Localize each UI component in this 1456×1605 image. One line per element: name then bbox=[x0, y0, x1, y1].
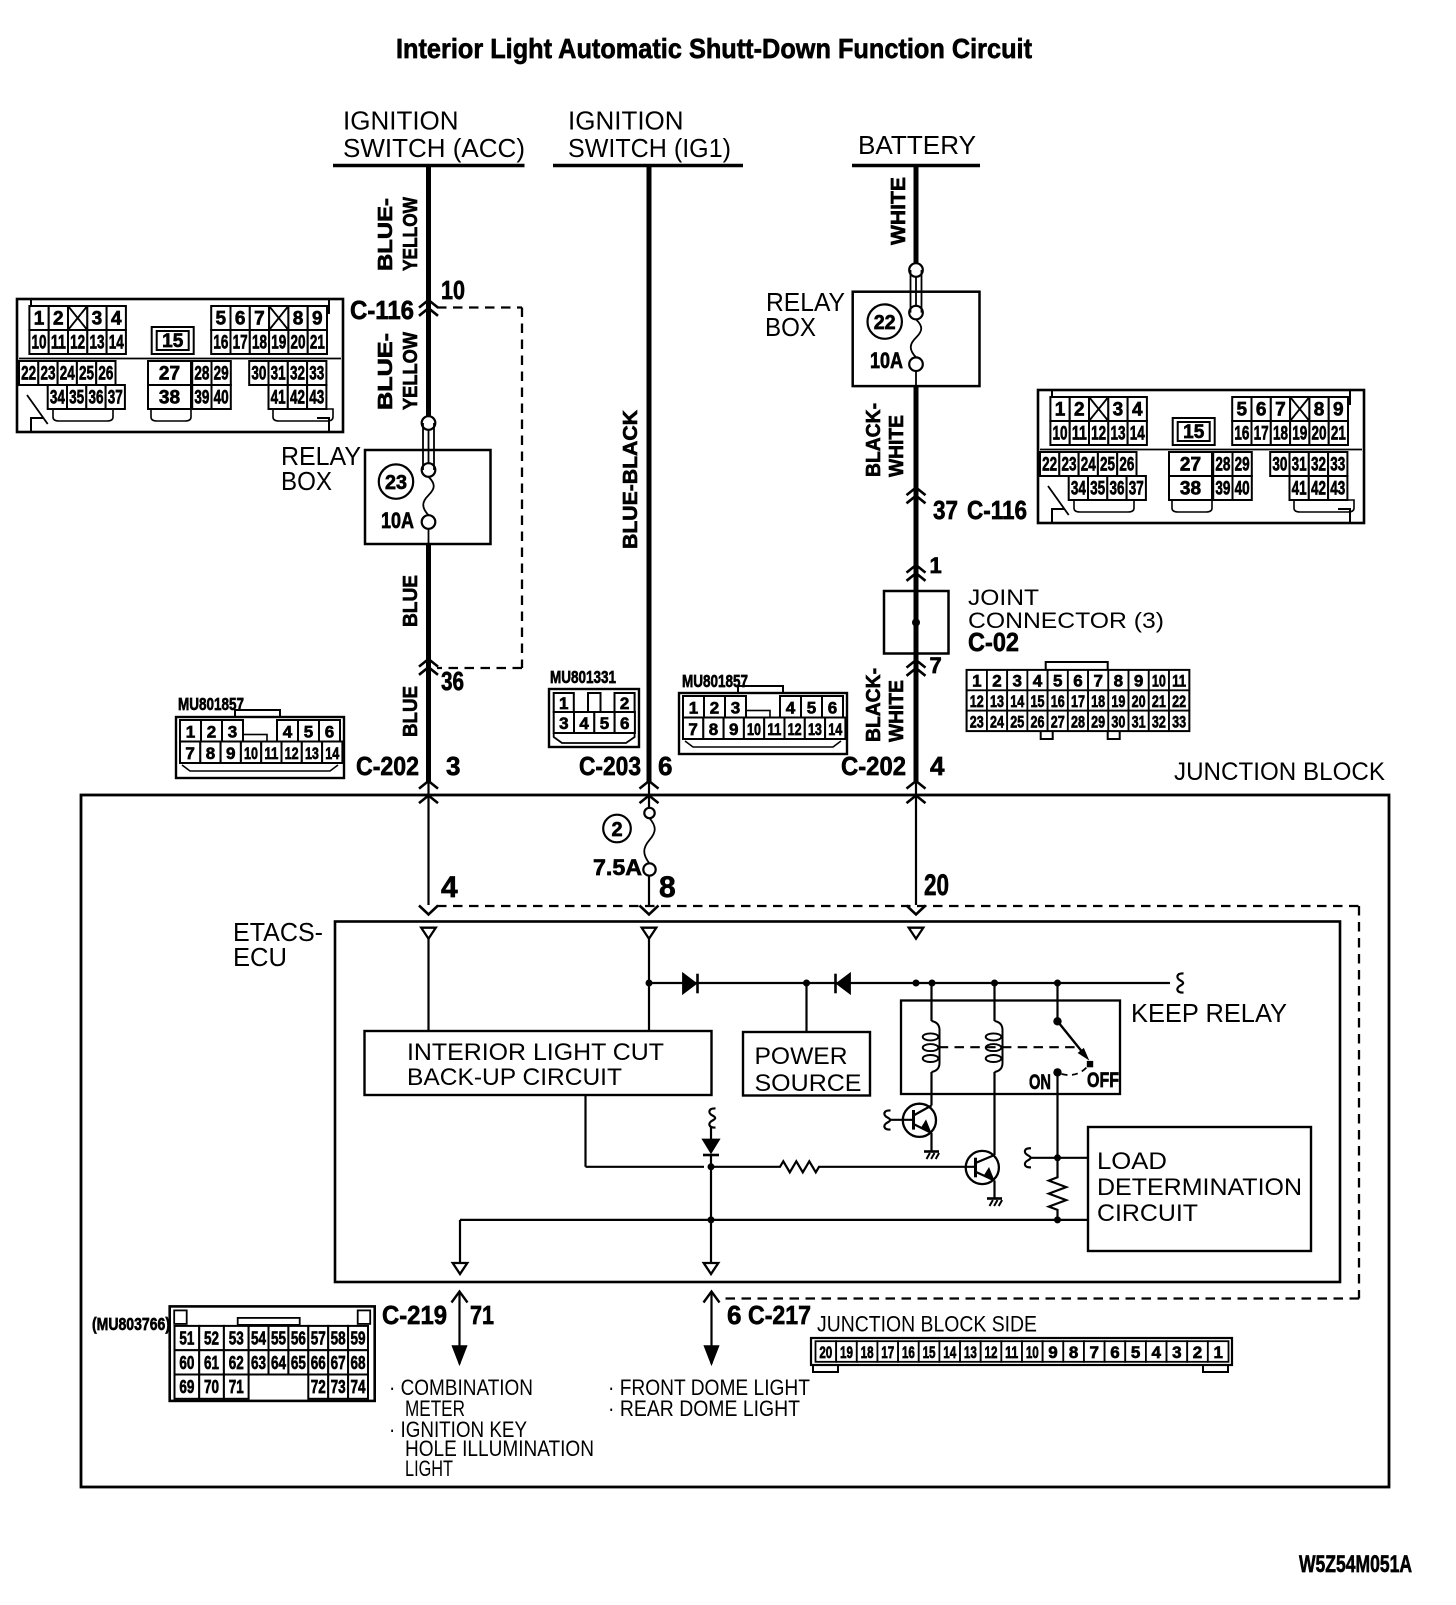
connector C-217 pin diagram bbox=[811, 1338, 1232, 1372]
svg-text:C-219: C-219 bbox=[382, 1300, 447, 1330]
arrow into ETACS connector pin 20 bbox=[907, 906, 926, 915]
svg-text:ECU: ECU bbox=[233, 942, 287, 972]
wire bus to power source bbox=[805, 983, 807, 1032]
svg-text:· REAR DOME LIGHT: · REAR DOME LIGHT bbox=[608, 1396, 800, 1421]
svg-text:35: 35 bbox=[1090, 479, 1105, 500]
fuse 23 10A bbox=[422, 416, 436, 430]
svg-text:22: 22 bbox=[21, 364, 36, 385]
svg-text:3: 3 bbox=[1172, 1343, 1181, 1362]
wire ACC inside junction block bbox=[427, 782, 429, 905]
bus continuation break bbox=[1177, 973, 1183, 992]
svg-text:11: 11 bbox=[1005, 1343, 1018, 1362]
svg-text:BLUE: BLUE bbox=[400, 686, 422, 737]
wire pin4 to backup circuit bbox=[427, 939, 429, 1032]
svg-text:3: 3 bbox=[228, 722, 237, 741]
svg-text:BLACK-: BLACK- bbox=[863, 403, 885, 477]
wire battery WHITE bbox=[914, 166, 919, 264]
svg-text:7: 7 bbox=[254, 309, 265, 330]
svg-text:39: 39 bbox=[1215, 479, 1230, 500]
svg-text:35: 35 bbox=[69, 388, 84, 409]
svg-text:22: 22 bbox=[1042, 455, 1057, 476]
svg-text:41: 41 bbox=[271, 388, 286, 409]
diode D1 (IG1 to bus) bbox=[683, 974, 696, 994]
svg-text:7: 7 bbox=[1093, 672, 1102, 691]
wire to pin 71 terminal bbox=[459, 1220, 461, 1263]
svg-text:13: 13 bbox=[808, 720, 822, 739]
svg-text:1: 1 bbox=[1213, 1343, 1222, 1362]
node R2 bottom junction bbox=[1054, 1216, 1061, 1223]
ground (Q1 emitter) bbox=[924, 1150, 939, 1153]
dashed ETACS boundary top bbox=[437, 905, 1359, 907]
wire internal supply bus bbox=[649, 982, 1170, 984]
svg-text:19: 19 bbox=[1292, 424, 1307, 445]
svg-text:15: 15 bbox=[923, 1343, 936, 1362]
svg-text:BOX: BOX bbox=[281, 466, 332, 496]
svg-text:6: 6 bbox=[828, 698, 837, 717]
svg-text:C-203: C-203 bbox=[579, 751, 641, 781]
svg-text:51: 51 bbox=[179, 1329, 194, 1349]
svg-text:LIGHT: LIGHT bbox=[405, 1456, 453, 1481]
svg-text:8: 8 bbox=[709, 720, 718, 739]
svg-text:SWITCH (ACC): SWITCH (ACC) bbox=[343, 133, 525, 163]
svg-text:2: 2 bbox=[611, 819, 622, 841]
svg-text:31: 31 bbox=[1292, 455, 1307, 476]
connector crossing pin 36 bbox=[419, 659, 438, 667]
svg-text:20: 20 bbox=[819, 1343, 832, 1362]
svg-text:7.5A: 7.5A bbox=[593, 855, 642, 880]
Q1 base continuation break bbox=[884, 1110, 890, 1129]
svg-text:23: 23 bbox=[970, 712, 984, 731]
svg-text:1: 1 bbox=[930, 553, 942, 578]
svg-text:53: 53 bbox=[229, 1329, 244, 1349]
svg-text:6: 6 bbox=[235, 309, 246, 330]
keep relay box bbox=[901, 1001, 1120, 1095]
svg-text:8: 8 bbox=[1114, 672, 1123, 691]
wire pin8 down to backup circuit bbox=[648, 939, 650, 1032]
svg-text:74: 74 bbox=[351, 1377, 366, 1397]
wire to pin 6 terminal bbox=[710, 1221, 712, 1263]
svg-text:JUNCTION BLOCK SIDE: JUNCTION BLOCK SIDE bbox=[817, 1312, 1037, 1337]
relay box (fuse 22) bbox=[853, 292, 980, 386]
connector crossing C-203 pin 6 bbox=[640, 781, 659, 789]
connector MU801331 pin diagram bbox=[549, 689, 639, 747]
svg-text:63: 63 bbox=[251, 1353, 266, 1373]
svg-text:6: 6 bbox=[727, 1300, 741, 1330]
arrow to C-219 pin 71 bbox=[458, 1292, 460, 1365]
svg-text:6: 6 bbox=[1073, 672, 1082, 691]
svg-text:14: 14 bbox=[1130, 424, 1145, 445]
node power source tap bbox=[803, 980, 810, 987]
svg-text:22: 22 bbox=[1172, 692, 1186, 711]
switch throw arc (dashed) bbox=[1062, 1067, 1088, 1076]
diode branch continuation break bbox=[709, 1108, 715, 1127]
svg-text:25: 25 bbox=[1100, 455, 1115, 476]
svg-text:25: 25 bbox=[79, 364, 94, 385]
svg-text:43: 43 bbox=[1330, 479, 1345, 500]
svg-text:13: 13 bbox=[89, 333, 104, 354]
svg-text:LOAD: LOAD bbox=[1097, 1148, 1167, 1175]
svg-text:36: 36 bbox=[1109, 479, 1124, 500]
svg-text:1: 1 bbox=[34, 309, 45, 330]
svg-text:11: 11 bbox=[767, 720, 781, 739]
svg-text:8: 8 bbox=[659, 871, 676, 904]
connector crossing C-116 pin 37 bbox=[907, 488, 926, 496]
svg-text:2: 2 bbox=[53, 309, 64, 330]
svg-text:8: 8 bbox=[293, 309, 304, 330]
arrow into ETACS connector pin 4 bbox=[419, 906, 438, 915]
wire IG1 to fuse 2 bbox=[648, 782, 650, 808]
node battery bus junction bbox=[913, 980, 920, 987]
svg-text:C-202: C-202 bbox=[356, 751, 419, 781]
svg-text:4: 4 bbox=[283, 722, 293, 741]
svg-text:1: 1 bbox=[186, 722, 195, 741]
connector MU801857 pin diagram (right) bbox=[679, 686, 847, 754]
fuse number circle 2 bbox=[603, 815, 631, 843]
svg-text:42: 42 bbox=[1311, 479, 1326, 500]
svg-text:12: 12 bbox=[70, 333, 85, 354]
load determination input break bbox=[1025, 1148, 1031, 1167]
svg-text:8: 8 bbox=[1314, 400, 1325, 421]
wire Q1 base bbox=[889, 1119, 913, 1121]
svg-text:23: 23 bbox=[1061, 455, 1076, 476]
svg-text:36: 36 bbox=[441, 666, 464, 696]
svg-text:29: 29 bbox=[1235, 455, 1250, 476]
svg-text:66: 66 bbox=[311, 1353, 326, 1373]
svg-text:IGNITION: IGNITION bbox=[568, 106, 684, 136]
svg-text:CIRCUIT: CIRCUIT bbox=[1097, 1200, 1198, 1227]
svg-text:KEEP RELAY: KEEP RELAY bbox=[1131, 998, 1287, 1028]
svg-text:6: 6 bbox=[325, 722, 334, 741]
svg-text:3: 3 bbox=[1013, 672, 1022, 691]
dashed ETACS boundary bottom bbox=[721, 1297, 1359, 1299]
wire ACC feed (BLUE-YELLOW) upper bbox=[426, 166, 431, 417]
svg-text:4: 4 bbox=[1033, 672, 1043, 691]
svg-text:18: 18 bbox=[861, 1343, 874, 1362]
svg-text:18: 18 bbox=[252, 333, 267, 354]
svg-text:BLUE-: BLUE- bbox=[375, 333, 397, 410]
svg-text:10: 10 bbox=[441, 275, 465, 305]
svg-text:21: 21 bbox=[310, 333, 325, 354]
svg-text:5: 5 bbox=[216, 309, 227, 330]
ETACS pin 71 terminal bbox=[453, 1263, 468, 1274]
svg-text:7: 7 bbox=[1090, 1343, 1099, 1362]
switch pivot bbox=[1053, 1017, 1061, 1025]
svg-text:1: 1 bbox=[559, 694, 568, 713]
svg-text:16: 16 bbox=[1051, 692, 1065, 711]
svg-text:C-116: C-116 bbox=[350, 295, 414, 325]
svg-text:17: 17 bbox=[1071, 692, 1085, 711]
svg-text:9: 9 bbox=[1134, 672, 1143, 691]
transistor Q1 bbox=[903, 1104, 936, 1137]
svg-text:10: 10 bbox=[1026, 1343, 1039, 1362]
connector MU801857 pin diagram (left) bbox=[176, 710, 344, 778]
connector C-219 pin diagram bbox=[170, 1306, 375, 1401]
svg-text:BLUE: BLUE bbox=[400, 575, 422, 627]
svg-text:7: 7 bbox=[930, 653, 942, 678]
node coil2 tap bbox=[991, 980, 998, 987]
svg-text:18: 18 bbox=[1091, 692, 1105, 711]
svg-text:3: 3 bbox=[559, 714, 568, 733]
svg-text:11: 11 bbox=[1172, 672, 1186, 691]
svg-text:13: 13 bbox=[305, 744, 319, 763]
svg-text:15: 15 bbox=[162, 331, 184, 352]
svg-text:31: 31 bbox=[1132, 712, 1146, 731]
svg-text:10A: 10A bbox=[381, 508, 414, 533]
transistor Q2 bbox=[966, 1151, 999, 1184]
svg-text:C-116: C-116 bbox=[967, 495, 1027, 525]
svg-text:BLACK-: BLACK- bbox=[863, 668, 885, 742]
svg-text:26: 26 bbox=[98, 364, 113, 385]
resistor R1 (horizontal) bbox=[711, 1161, 976, 1172]
svg-text:JUNCTION BLOCK: JUNCTION BLOCK bbox=[1174, 758, 1385, 786]
svg-text:20: 20 bbox=[291, 333, 306, 354]
svg-text:14: 14 bbox=[109, 333, 124, 354]
svg-text:15: 15 bbox=[1183, 422, 1205, 443]
svg-text:29: 29 bbox=[1091, 712, 1105, 731]
power source box bbox=[743, 1032, 870, 1096]
node output junction bbox=[708, 1216, 715, 1223]
svg-text:9: 9 bbox=[729, 720, 738, 739]
svg-text:23: 23 bbox=[40, 364, 55, 385]
switch ON contact bbox=[1053, 1068, 1061, 1076]
svg-text:30: 30 bbox=[1111, 712, 1125, 731]
resistor R2 (vertical) bbox=[1049, 1158, 1066, 1221]
wire ACC BLUE to junction block bbox=[426, 544, 431, 782]
svg-text:5: 5 bbox=[1053, 672, 1062, 691]
wire dashed route to pin36 bbox=[437, 667, 522, 669]
svg-text:37: 37 bbox=[108, 388, 123, 409]
svg-text:5: 5 bbox=[1237, 400, 1248, 421]
relay coil 2 bbox=[993, 983, 995, 1021]
svg-text:19: 19 bbox=[840, 1343, 853, 1362]
svg-text:59: 59 bbox=[351, 1329, 366, 1349]
node ON junction bbox=[1054, 1154, 1061, 1161]
svg-text:12: 12 bbox=[970, 692, 984, 711]
svg-text:34: 34 bbox=[50, 388, 65, 409]
svg-text:3: 3 bbox=[1113, 400, 1124, 421]
joint connector internal node bbox=[912, 619, 920, 627]
svg-text:C-02: C-02 bbox=[968, 627, 1019, 657]
svg-text:BATTERY: BATTERY bbox=[858, 130, 976, 160]
svg-text:24: 24 bbox=[990, 712, 1004, 731]
svg-text:9: 9 bbox=[312, 309, 323, 330]
svg-text:BOX: BOX bbox=[765, 312, 816, 342]
node IG1 bus junction bbox=[646, 980, 653, 987]
svg-text:6: 6 bbox=[1110, 1343, 1119, 1362]
relay switch arm bbox=[1056, 983, 1058, 1021]
svg-text:20: 20 bbox=[1132, 692, 1146, 711]
svg-text:4: 4 bbox=[441, 871, 458, 904]
svg-text:7: 7 bbox=[185, 744, 194, 763]
svg-text:7: 7 bbox=[688, 720, 697, 739]
node switch tap bbox=[1054, 980, 1061, 987]
svg-text:10: 10 bbox=[1053, 424, 1068, 445]
svg-text:24: 24 bbox=[1081, 455, 1096, 476]
svg-text:73: 73 bbox=[331, 1377, 346, 1397]
svg-text:(MU803766): (MU803766) bbox=[92, 1314, 170, 1334]
relay coil 1 bbox=[930, 983, 932, 1021]
wire switch ON to load determination bbox=[1056, 1072, 1058, 1157]
svg-text:28: 28 bbox=[1215, 455, 1230, 476]
svg-text:33: 33 bbox=[309, 364, 324, 385]
dashed ETACS boundary right bbox=[1358, 906, 1360, 1299]
svg-text:62: 62 bbox=[229, 1353, 244, 1373]
svg-text:32: 32 bbox=[1311, 455, 1326, 476]
svg-text:6: 6 bbox=[1256, 400, 1267, 421]
svg-text:24: 24 bbox=[60, 364, 75, 385]
interior light cut back-up circuit box bbox=[365, 1031, 712, 1095]
svg-text:17: 17 bbox=[233, 333, 248, 354]
svg-text:41: 41 bbox=[1292, 479, 1307, 500]
svg-text:71: 71 bbox=[470, 1300, 494, 1330]
svg-text:2: 2 bbox=[992, 672, 1001, 691]
connector crossing C-116 pin 10 bbox=[419, 300, 438, 308]
svg-text:37: 37 bbox=[1129, 479, 1144, 500]
svg-text:SOURCE: SOURCE bbox=[755, 1070, 862, 1097]
wire battery inside junction block bbox=[915, 782, 917, 905]
svg-text:21: 21 bbox=[1152, 692, 1166, 711]
svg-text:18: 18 bbox=[1273, 424, 1288, 445]
svg-text:2: 2 bbox=[710, 698, 719, 717]
svg-text:69: 69 bbox=[179, 1377, 194, 1397]
svg-text:40: 40 bbox=[214, 388, 229, 409]
svg-text:16: 16 bbox=[902, 1343, 915, 1362]
svg-text:27: 27 bbox=[159, 364, 180, 385]
svg-text:68: 68 bbox=[351, 1353, 366, 1373]
svg-text:23: 23 bbox=[385, 472, 407, 494]
svg-text:43: 43 bbox=[309, 388, 324, 409]
svg-text:3: 3 bbox=[731, 698, 740, 717]
svg-text:4: 4 bbox=[111, 309, 122, 330]
wire dashed route pin10 horizontal bbox=[437, 306, 522, 308]
svg-text:MU801331: MU801331 bbox=[550, 667, 616, 687]
svg-text:22: 22 bbox=[874, 312, 896, 334]
connector crossing C-202 pin 4 bbox=[907, 781, 926, 789]
ETACS pin 4 terminal bbox=[421, 928, 436, 939]
fuse 2 7.5A bbox=[644, 808, 654, 818]
svg-text:29: 29 bbox=[214, 364, 229, 385]
svg-text:4: 4 bbox=[579, 714, 589, 733]
wire backup circuit output bbox=[584, 1095, 586, 1167]
svg-text:11: 11 bbox=[51, 333, 66, 354]
svg-text:33: 33 bbox=[1330, 455, 1345, 476]
svg-text:38: 38 bbox=[159, 388, 180, 409]
svg-text:8: 8 bbox=[1069, 1343, 1078, 1362]
arrow into ETACS connector pin 8 bbox=[640, 906, 659, 915]
svg-text:OFF: OFF bbox=[1087, 1069, 1119, 1092]
svg-text:39: 39 bbox=[194, 388, 209, 409]
svg-text:12: 12 bbox=[1091, 424, 1106, 445]
svg-text:13: 13 bbox=[964, 1343, 977, 1362]
fuse number circle 22 bbox=[868, 304, 902, 338]
svg-text:36: 36 bbox=[88, 388, 103, 409]
svg-text:21: 21 bbox=[1331, 424, 1346, 445]
svg-text:17: 17 bbox=[1254, 424, 1269, 445]
svg-text:19: 19 bbox=[1111, 692, 1125, 711]
svg-text:61: 61 bbox=[204, 1353, 219, 1373]
svg-text:WHITE: WHITE bbox=[888, 177, 910, 245]
svg-text:20: 20 bbox=[924, 869, 949, 902]
svg-text:3: 3 bbox=[92, 309, 103, 330]
svg-text:BACK-UP CIRCUIT: BACK-UP CIRCUIT bbox=[407, 1064, 622, 1091]
svg-text:28: 28 bbox=[194, 364, 209, 385]
svg-text:28: 28 bbox=[1071, 712, 1085, 731]
svg-text:INTERIOR LIGHT CUT: INTERIOR LIGHT CUT bbox=[407, 1039, 664, 1066]
svg-text:8: 8 bbox=[206, 744, 215, 763]
svg-text:27: 27 bbox=[1180, 455, 1201, 476]
svg-text:6: 6 bbox=[620, 714, 629, 733]
svg-text:2: 2 bbox=[1193, 1343, 1202, 1362]
ETACS-ECU outline bbox=[335, 922, 1340, 1283]
svg-text:13: 13 bbox=[1110, 424, 1125, 445]
svg-text:20: 20 bbox=[1312, 424, 1327, 445]
svg-text:9: 9 bbox=[1333, 400, 1344, 421]
svg-text:2: 2 bbox=[1074, 400, 1085, 421]
svg-text:12: 12 bbox=[788, 720, 802, 739]
svg-text:2: 2 bbox=[620, 694, 629, 713]
svg-text:26: 26 bbox=[1031, 712, 1045, 731]
svg-text:32: 32 bbox=[1152, 712, 1166, 731]
connector C-116 pin diagram (right) bbox=[1038, 390, 1364, 523]
connector C-02 pin diagram bbox=[967, 662, 1190, 739]
fuse number circle 23 bbox=[379, 464, 413, 498]
svg-text:1: 1 bbox=[1055, 400, 1066, 421]
svg-text:55: 55 bbox=[271, 1329, 286, 1349]
svg-text:72: 72 bbox=[311, 1377, 326, 1397]
svg-text:5: 5 bbox=[807, 698, 816, 717]
svg-text:11: 11 bbox=[264, 744, 278, 763]
svg-text:3: 3 bbox=[446, 751, 460, 781]
wire dashed route vertical bbox=[521, 308, 523, 669]
svg-text:10: 10 bbox=[747, 720, 761, 739]
svg-text:70: 70 bbox=[204, 1377, 219, 1397]
connector crossing C-202 pin 3 bbox=[419, 781, 438, 789]
svg-text:25: 25 bbox=[1010, 712, 1024, 731]
node coil1 tap bbox=[929, 980, 936, 987]
svg-text:WHITE: WHITE bbox=[886, 415, 908, 477]
svg-text:BLUE-BLACK: BLUE-BLACK bbox=[620, 409, 642, 549]
svg-text:11: 11 bbox=[1072, 424, 1087, 445]
svg-text:14: 14 bbox=[1010, 692, 1024, 711]
svg-text:33: 33 bbox=[1172, 712, 1186, 731]
relay box (fuse 23) bbox=[365, 450, 491, 544]
wire output bus to load determination bbox=[460, 1219, 1088, 1221]
svg-text:16: 16 bbox=[1234, 424, 1249, 445]
svg-text:54: 54 bbox=[251, 1329, 266, 1349]
svg-text:12: 12 bbox=[985, 1343, 998, 1362]
svg-text:6: 6 bbox=[658, 751, 672, 781]
svg-text:DETERMINATION: DETERMINATION bbox=[1097, 1174, 1302, 1201]
ETACS pin 8 terminal bbox=[642, 928, 657, 939]
svg-text:YELLOW: YELLOW bbox=[400, 197, 422, 271]
wire to diode D3 bbox=[710, 1127, 712, 1140]
svg-text:71: 71 bbox=[229, 1377, 244, 1397]
svg-text:58: 58 bbox=[331, 1329, 346, 1349]
svg-text:4: 4 bbox=[1151, 1343, 1161, 1362]
joint connector (3) C-02 box bbox=[884, 591, 949, 654]
svg-text:5: 5 bbox=[600, 714, 609, 733]
svg-text:42: 42 bbox=[290, 388, 305, 409]
svg-text:4: 4 bbox=[1132, 400, 1143, 421]
svg-text:9: 9 bbox=[1048, 1343, 1057, 1362]
svg-text:C-217: C-217 bbox=[748, 1300, 811, 1330]
connector crossing joint connector pin 1 bbox=[907, 565, 926, 573]
svg-text:67: 67 bbox=[331, 1353, 346, 1373]
svg-text:SWITCH (IG1): SWITCH (IG1) bbox=[568, 133, 731, 163]
svg-text:4: 4 bbox=[930, 751, 945, 781]
svg-text:56: 56 bbox=[291, 1329, 306, 1349]
svg-text:10: 10 bbox=[1152, 672, 1166, 691]
